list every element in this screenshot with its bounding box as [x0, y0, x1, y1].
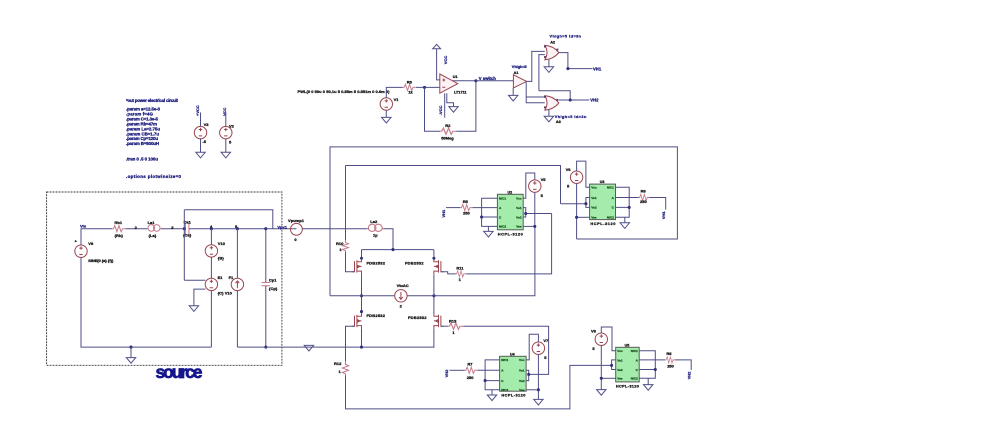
wire M3 gate bottom run: [346, 365, 612, 409]
ground flag on rail: [304, 345, 313, 351]
svg-text:Vee: Vee: [516, 225, 522, 229]
wire M3 source: [361, 329, 363, 347]
IC U5 HCPL-3120: [616, 347, 640, 382]
svg-text:Vcc: Vcc: [617, 349, 623, 353]
wire bypass top: [184, 210, 272, 229]
svg-text:Vhigh=5 td=3n: Vhigh=5 td=3n: [550, 34, 582, 38]
wire U4 bus ground stub: [491, 390, 493, 395]
svg-text:N/C1: N/C1: [501, 358, 508, 362]
wire V7 bottom to Vee: [537, 354, 539, 399]
svg-text:Vin: Vin: [80, 224, 87, 229]
svg-text:R7: R7: [467, 361, 473, 366]
node junction M1 source: [360, 294, 363, 297]
wire buffer output to gate A3 inputs: [526, 81, 545, 102]
wire U3 bus ground stub: [624, 217, 626, 223]
svg-text:N/C2: N/C2: [607, 216, 614, 220]
svg-text:Rb1: Rb1: [115, 220, 123, 225]
wire Ca1 to node 4 and onwards: [189, 228, 297, 230]
wire U3 output bracket: [561, 198, 590, 208]
voltage source V1: [380, 98, 392, 110]
resistor R10 gate M1: [342, 240, 348, 252]
wire VH2 to R7: [450, 369, 465, 371]
node junction U3 bus: [628, 206, 631, 209]
inductor La2: [367, 224, 383, 231]
ground below U3 bus: [620, 223, 629, 229]
wire feedback left leg: [425, 87, 441, 131]
ground below U5 bus: [644, 385, 653, 391]
svg-text:PWL(0 0 50u 0 50.1u 5 0.55m 5: PWL(0 0 50u 0 50.1u 5 0.55m 5 0.551m 0 0…: [298, 89, 391, 94]
svg-text:Vo2: Vo2: [516, 215, 522, 219]
transistor M3: [352, 313, 362, 329]
svg-text:.param B=500uH: .param B=500uH: [126, 141, 159, 146]
wire node A riser: [330, 147, 677, 296]
svg-text:La1: La1: [148, 220, 156, 225]
wire node4 down to V10: [210, 229, 212, 245]
node junction 5: [236, 227, 239, 230]
wire U5 bus ground stub: [647, 378, 649, 384]
wire U4 Vcc to V7: [526, 334, 538, 360]
svg-text:R13: R13: [449, 319, 457, 324]
wire F1 bottom to rail: [236, 291, 238, 348]
U2 pin labels: [499, 197, 522, 229]
svg-text:250: 250: [667, 363, 674, 368]
IC U2 HCPL-3120: [497, 194, 523, 230]
node gate A2 output: [566, 67, 569, 70]
svg-text:E1: E1: [218, 275, 224, 280]
node gate A3 output: [569, 98, 572, 101]
svg-text:VH1: VH1: [593, 66, 602, 71]
svg-text:Vpv1: Vpv1: [277, 224, 287, 229]
voltage source V2: [220, 126, 232, 138]
resistor R13 gate M4: [448, 323, 463, 329]
voltage source V9: [75, 245, 87, 257]
svg-text:Vhigh=5: Vhigh=5: [512, 65, 527, 69]
wire M4 gate to U4 output: [463, 326, 548, 374]
svg-text:Vee: Vee: [617, 377, 623, 381]
wire U4 output bracket: [526, 370, 529, 380]
wire Vpump1 to inductor La2: [302, 228, 367, 230]
wire bridge top rail: [362, 249, 434, 251]
svg-text:Vee: Vee: [519, 388, 525, 392]
resistor R11 gate M2: [456, 271, 466, 277]
svg-text:VH2: VH2: [687, 371, 692, 380]
svg-text:VH1: VH1: [441, 209, 446, 218]
wire mid rail right: [407, 226, 535, 295]
svg-text:1µ: 1µ: [373, 232, 378, 237]
op-amp U1 comparator LT1711: [440, 74, 458, 93]
wire V5 bottom to Vee: [534, 192, 536, 226]
node junction U2 output: [524, 212, 527, 215]
svg-text:R5: R5: [463, 199, 469, 204]
resistor Rb1: [112, 226, 125, 232]
svg-text:{Cp}: {Cp}: [269, 286, 278, 291]
wire V1 top: [386, 87, 403, 97]
svg-text:{B}: {B}: [218, 255, 224, 260]
wire V3 top: [200, 113, 202, 127]
resistor R12 gate M3: [342, 362, 348, 376]
wire comparator output: [453, 80, 476, 82]
svg-text:.options plotwinsize=0: .options plotwinsize=0: [126, 174, 182, 179]
node M1 drain pin: [360, 257, 363, 260]
node junction U5 bus: [654, 368, 657, 371]
svg-text:Vee: Vee: [591, 216, 597, 220]
ground below V2: [221, 152, 230, 158]
svg-text:R3: R3: [407, 79, 413, 84]
inductor La1: [147, 225, 161, 232]
svg-text:Cp1: Cp1: [269, 277, 277, 282]
svg-text:HCPL-3120: HCPL-3120: [616, 383, 639, 388]
ground below U2 bus: [484, 231, 493, 237]
wire node5 down to F1: [236, 229, 238, 279]
svg-text:FDB2532: FDB2532: [408, 315, 427, 320]
spice param lines: [126, 107, 161, 147]
wire Cp1 top: [265, 229, 267, 283]
svg-text:HCPL-3120: HCPL-3120: [590, 221, 615, 226]
node junction U3 Vee: [575, 216, 578, 219]
IC U4 HCPL-3120: [500, 356, 526, 391]
voltage source V10: [205, 245, 217, 257]
node junction rail ground tap: [129, 346, 132, 349]
wire R8 to VH2 flag: [675, 360, 691, 370]
wire VH1 to R5: [446, 207, 460, 209]
wire sense riser through main line: [183, 210, 185, 280]
wire U2 Vee stub: [523, 225, 535, 227]
svg-text:Vo1: Vo1: [519, 369, 525, 373]
svg-text:N/C2: N/C2: [501, 388, 508, 392]
wire V6 top to Vcc: [577, 161, 590, 187]
transistor M1: [352, 259, 362, 275]
node junction Cp1 rail: [264, 346, 267, 349]
wire M4 source: [433, 329, 435, 347]
svg-text:Vhigh=5 td=3n: Vhigh=5 td=3n: [555, 115, 587, 119]
svg-text:R11: R11: [456, 265, 464, 270]
wire M1 drain: [361, 250, 363, 259]
wire gate drive loop upper: [346, 166, 561, 204]
logic gate A3: [545, 96, 559, 110]
svg-text:V5: V5: [541, 177, 547, 182]
svg-text:50Meg: 50Meg: [441, 135, 454, 140]
node junction 4: [210, 227, 213, 230]
svg-text:VtoAC: VtoAC: [397, 283, 409, 288]
voltage source V8: [595, 333, 607, 345]
voltage source V3: [194, 126, 206, 138]
wire E1 sense upper stub: [184, 279, 205, 281]
wire U5 right pin bus: [639, 351, 655, 379]
wire ground rail right: [237, 346, 434, 348]
svg-text:V8: V8: [591, 328, 597, 333]
wire M2 gate to U2 output: [466, 214, 551, 274]
wire V6 bottom riser: [576, 183, 578, 239]
svg-text:V10: V10: [218, 241, 226, 246]
svg-text:R12: R12: [334, 361, 342, 366]
svg-text:F1: F1: [229, 275, 234, 280]
svg-text:V6: V6: [566, 167, 572, 172]
svg-text:250: 250: [463, 211, 470, 216]
node junction U4 bus: [484, 379, 487, 382]
wire buffer output to gate A2 input: [527, 51, 545, 81]
load source VtoAC: [395, 290, 407, 302]
wire U5 output bracket: [612, 360, 616, 370]
svg-text:Vo1: Vo1: [516, 206, 522, 210]
wire cross coupling lower: [539, 91, 570, 100]
svg-text:R8: R8: [666, 351, 672, 356]
resistor R3: [403, 84, 416, 90]
svg-text:LT1711: LT1711: [454, 91, 467, 95]
svg-text:{Rb}: {Rb}: [115, 233, 124, 238]
wire R5 to pin A: [473, 207, 498, 209]
svg-text:+VCC: +VCC: [195, 105, 200, 116]
wire U5 pin A to R8: [639, 359, 665, 361]
ground below V1: [385, 110, 387, 117]
dashed boundary box: [47, 192, 282, 365]
wire M1 source to mid rail: [361, 274, 363, 313]
svg-text:N/C1: N/C1: [607, 186, 614, 190]
wire R3 to comparator: [416, 86, 440, 88]
svg-text:N/C2: N/C2: [631, 377, 638, 381]
svg-text:source: source: [156, 362, 203, 382]
resistor R7: [465, 367, 478, 373]
wire V9 top to Vin corner: [81, 229, 112, 245]
wire R6 to VH1 flag: [650, 198, 666, 210]
svg-text:1k: 1k: [408, 90, 413, 95]
voltage source V6: [570, 171, 582, 183]
wire U2 left pin bus: [482, 198, 498, 226]
dependent source E1: [205, 278, 217, 290]
node junction at Cp1 top: [264, 227, 267, 230]
wire U4 left pin bus: [485, 360, 500, 390]
wire La2 to bridge top: [383, 229, 393, 250]
ground below V3: [196, 152, 205, 158]
wire M1 gate riser: [345, 166, 347, 241]
svg-text:HCPL-3120: HCPL-3120: [501, 393, 525, 398]
capacitor Cp1: [262, 283, 271, 286]
wire U3 pin A to R6: [616, 197, 639, 199]
node junction M3 source: [360, 346, 363, 349]
node junction U4 Vee: [537, 388, 540, 391]
svg-text:Vcc: Vcc: [516, 197, 522, 201]
svg-text:Vo2: Vo2: [519, 379, 525, 383]
wire R7 to U4 pin A: [477, 369, 499, 371]
node M2 drain pin: [432, 257, 435, 260]
transistor M4: [434, 313, 444, 329]
node junction at feedback tap: [423, 86, 426, 89]
svg-text:V9: V9: [88, 241, 94, 246]
IC U3 HCPL-3120: [590, 184, 616, 220]
svg-text:Vo1: Vo1: [591, 196, 597, 200]
wire M4 drain: [433, 296, 435, 313]
svg-text:Vcc: Vcc: [591, 186, 597, 190]
svg-text:N/C1: N/C1: [499, 197, 506, 201]
svg-text:U1: U1: [453, 75, 458, 79]
wire M2 gate: [441, 272, 456, 274]
svg-text:R10: R10: [336, 241, 344, 246]
power flag VCC arrow: [433, 44, 441, 48]
svg-text:-VCC: -VCC: [438, 106, 443, 116]
wire comparator latch pin to ground: [447, 93, 454, 106]
wire U2 output bracket: [523, 208, 551, 217]
ground below gate A2: [548, 60, 550, 67]
resistor R2 feedback: [440, 128, 456, 134]
wire M2 source: [433, 274, 435, 296]
svg-text:A3: A3: [556, 120, 561, 124]
wire V10 to E1: [210, 257, 212, 278]
svg-text:HCPL-3120: HCPL-3120: [498, 231, 523, 236]
svg-text:Vo1: Vo1: [617, 358, 623, 362]
wire ground rail left: [81, 257, 211, 347]
ground below buffer A1: [512, 88, 514, 95]
svg-text:V3: V3: [204, 122, 210, 127]
wire mid rail left: [330, 295, 395, 297]
wire M4 gate: [441, 325, 448, 327]
wire E1 bottom to rail: [210, 291, 212, 347]
resistor R5: [460, 205, 472, 211]
ground below rail: [126, 358, 135, 364]
svg-text:250: 250: [467, 375, 474, 380]
U3 pin labels: [591, 186, 614, 220]
wire V switch to buffer: [476, 80, 514, 82]
wire ground tap: [130, 347, 132, 358]
voltage source V5: [529, 180, 541, 192]
svg-text:FDB2532: FDB2532: [367, 260, 386, 265]
svg-text:Vpump1: Vpump1: [288, 218, 305, 223]
voltage source V7: [532, 342, 544, 354]
svg-text:U2: U2: [508, 190, 513, 194]
node junction M3 drain: [360, 310, 363, 313]
svg-text:Vo2: Vo2: [591, 206, 597, 210]
wire feedback right leg: [456, 81, 476, 131]
svg-text:.tran 0 .5 0 100u: .tran 0 .5 0 100u: [126, 157, 158, 162]
ground below comparator: [449, 107, 458, 113]
node junction U3 output: [584, 202, 587, 205]
wire M3 gate: [346, 326, 355, 361]
wire Rb1 to La1: [125, 228, 147, 230]
svg-text:U3: U3: [600, 180, 605, 184]
ground below gate A3: [548, 110, 550, 116]
wire La1 to Ca1: [161, 228, 185, 230]
node junction U4 output: [527, 373, 530, 376]
wire U2 Vcc to V5: [523, 173, 535, 198]
svg-text:V1: V1: [394, 97, 400, 102]
wire V3 bottom: [200, 139, 202, 153]
ground below V8: [597, 390, 606, 396]
ground below U4 bus: [487, 395, 496, 401]
wire U3 right pin bus: [616, 187, 630, 217]
svg-text:*out power electrical circuit: *out power electrical circuit: [126, 98, 179, 103]
svg-text:R6: R6: [641, 189, 647, 194]
svg-text:VH2: VH2: [444, 369, 449, 378]
ground below E1 sense: [189, 306, 198, 312]
current source F1: [231, 278, 243, 290]
svg-text:Vcc: Vcc: [519, 358, 525, 362]
svg-text:U4: U4: [510, 352, 515, 356]
svg-text:FDB2532: FDB2532: [367, 313, 386, 318]
logic gate A2: [545, 45, 559, 59]
wire V8 top to Vcc: [601, 327, 615, 351]
svg-text:250: 250: [640, 199, 647, 204]
wire V8 bottom riser: [600, 345, 602, 389]
svg-text:V7: V7: [543, 338, 549, 343]
wire gate A2 output: [559, 53, 593, 69]
wire U2 bus ground stub: [487, 226, 489, 231]
svg-text:SINE(0 {a} {f}): SINE(0 {a} {f}): [88, 258, 114, 263]
svg-text:R2: R2: [445, 123, 451, 128]
resistor R6: [639, 194, 650, 200]
U4 pin labels: [501, 358, 525, 392]
ground below V7: [534, 399, 543, 405]
wire V2 top: [225, 113, 227, 127]
wire VCC arrow stem: [437, 49, 442, 80]
svg-text:U5: U5: [625, 343, 630, 347]
node V switch: [474, 79, 477, 82]
wire U5 Vee stub: [601, 377, 615, 379]
svg-text:A1: A1: [514, 71, 519, 75]
resistor R8: [665, 357, 675, 363]
svg-text:N/C1: N/C1: [631, 349, 638, 353]
svg-text:VCC: VCC: [222, 107, 227, 116]
wire gate A2 second input: [539, 55, 545, 91]
wire U3 Vee stub: [577, 216, 590, 218]
node junction bridge top: [391, 248, 394, 251]
wire M2 drain: [433, 250, 435, 259]
U5 pin labels: [617, 349, 638, 381]
svg-text:FDB2532: FDB2532: [405, 260, 424, 265]
voltage probe source Vpump1: [291, 223, 303, 235]
svg-text:{La}: {La}: [149, 233, 157, 238]
node junction U2 bus: [480, 215, 483, 218]
wire gate A3 output: [559, 99, 590, 101]
node junction at x184: [183, 227, 186, 230]
wire E1 sense lower stub to ground: [194, 289, 206, 306]
wire comparator negative supply pin: [444, 93, 446, 117]
svg-text:{C} V10: {C} V10: [218, 291, 233, 296]
wire V2 bottom: [225, 139, 227, 153]
svg-text:VH1: VH1: [661, 211, 666, 220]
node junction U2 Vee: [533, 225, 536, 228]
wire Cp1 bottom to rail: [265, 286, 267, 347]
node junction U5 output: [610, 364, 613, 367]
svg-text:A2: A2: [550, 40, 555, 44]
svg-text:La2: La2: [370, 219, 378, 224]
wire M1 gate: [346, 252, 355, 272]
capacitor Ca1: [185, 223, 189, 235]
svg-text:Vo2: Vo2: [617, 368, 623, 372]
buffer A1: [513, 75, 526, 88]
svg-text:V2: V2: [229, 124, 235, 129]
node junction M2 source: [432, 294, 435, 297]
transistor M2: [434, 259, 444, 275]
node junction U5 Vee: [600, 377, 603, 380]
svg-text:VCC: VCC: [443, 56, 448, 65]
wire U4 Vee stub: [526, 389, 538, 391]
svg-text:VH2: VH2: [590, 98, 599, 103]
svg-text:N/C2: N/C2: [499, 225, 506, 229]
